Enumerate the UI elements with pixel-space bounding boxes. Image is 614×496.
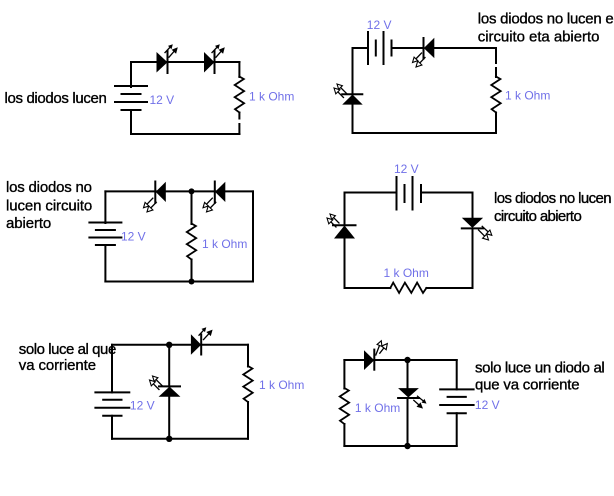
wire right lower vertical with gap (circuit 1): [238, 113, 240, 119]
node junction bottom (circuit 6): [404, 443, 410, 449]
node junction bottom (circuit 3): [189, 279, 195, 285]
wire top-left segment (circuit 2): [353, 47, 369, 49]
svg-text:12 V: 12 V: [475, 398, 500, 412]
wire left vertical (circuit 2): [352, 48, 354, 94]
wire bottom (circuit 5): [112, 438, 248, 440]
LED D7 (reversed, pointing up): [327, 214, 356, 239]
svg-text:12 V: 12 V: [150, 93, 175, 107]
svg-text:1 k Ohm: 1 k Ohm: [259, 378, 304, 392]
wire bottom (circuit 3): [105, 281, 253, 283]
resistor R3: [187, 224, 196, 260]
wire bottom (circuit 2): [353, 132, 497, 134]
resistor R2: [491, 77, 500, 113]
battery B2 12V: [368, 32, 392, 64]
svg-text:1 k Ohm: 1 k Ohm: [249, 90, 294, 104]
LED D11 (not lit): [364, 341, 387, 370]
svg-text:1 k Ohm: 1 k Ohm: [202, 237, 247, 251]
wire left lower vertical (circuit 5): [111, 416, 113, 439]
wire top (circuit 3): [105, 190, 253, 192]
LED D1: [157, 44, 178, 73]
svg-text:1 k Ohm: 1 k Ohm: [384, 266, 429, 280]
svg-text:1 k Ohm: 1 k Ohm: [505, 89, 550, 103]
wire middle branch lower (circuit 3): [191, 260, 193, 282]
wire left vertical (circuit 1): [130, 62, 132, 87]
battery B6 12V: [440, 389, 473, 413]
LED D8 (reversed, pointing down): [462, 218, 492, 240]
wire bottom (circuit 1): [131, 133, 239, 135]
wire right upper vertical (circuit 6): [456, 360, 458, 389]
svg-text:solo luce al que: solo luce al que: [19, 341, 116, 358]
battery B5 12V: [95, 392, 129, 415]
LED D6 (reversed): [203, 182, 225, 212]
wire left vertical (circuit 5): [111, 345, 113, 393]
svg-text:abierto: abierto: [6, 215, 51, 232]
svg-text:que va corriente: que va corriente: [475, 377, 579, 394]
wire left upper vertical (circuit 4): [344, 193, 346, 226]
LED D5 (reversed): [144, 182, 166, 212]
wire middle branch lower (circuit 6): [407, 398, 409, 446]
svg-text:los diodos lucen: los diodos lucen: [5, 90, 107, 107]
wire middle branch upper (circuit 6): [407, 360, 409, 388]
wire top right segment (circuit 4): [421, 192, 473, 194]
node junction bottom (circuit 5): [166, 436, 172, 442]
wire middle branch upper (circuit 3): [191, 191, 193, 224]
wire bottom left segment (circuit 4): [345, 287, 391, 289]
wire right lower vertical (circuit 6): [456, 413, 458, 446]
resistor R4: [390, 283, 426, 293]
wire left upper vertical (circuit 6): [343, 360, 345, 389]
wire left lower vertical (circuit 1): [130, 110, 132, 134]
wire top (circuit 1): [131, 61, 239, 63]
wire top (circuit 5): [112, 344, 248, 346]
wire LED to right corner (circuit 2): [434, 47, 496, 49]
wire middle branch lower (circuit 5): [168, 397, 170, 439]
svg-text:circuito eta abierto: circuito eta abierto: [478, 28, 600, 45]
wire left vertical (circuit 3): [104, 191, 106, 223]
wire right lower vertical (circuit 5): [247, 402, 249, 439]
wire right lower vertical (circuit 4): [472, 228, 474, 288]
diode D10 (middle branch, pointing up): [150, 376, 181, 397]
battery B4 12V: [397, 177, 422, 210]
svg-text:1 k Ohm: 1 k Ohm: [355, 401, 400, 415]
wire right upper vertical (circuit 4): [472, 193, 474, 219]
node junction top (circuit 3): [189, 188, 195, 194]
svg-text:va corriente: va corriente: [19, 357, 96, 374]
svg-text:lucen circuito: lucen circuito: [6, 198, 92, 215]
node junction top (circuit 6): [404, 357, 410, 363]
resistor R5: [243, 366, 252, 402]
wire bottom right segment (circuit 4): [426, 287, 472, 289]
battery B1 12V: [115, 86, 147, 110]
wire right lower vertical (circuit 2): [495, 113, 497, 134]
svg-text:los diodos no lucen: los diodos no lucen: [494, 190, 611, 207]
node junction top (circuit 5): [166, 342, 172, 348]
LED D3 (reversed): [413, 38, 435, 67]
svg-text:12 V: 12 V: [130, 399, 155, 413]
wire bottom (circuit 6): [344, 445, 456, 447]
svg-text:12 V: 12 V: [121, 229, 146, 243]
wire left lower vertical (circuit 4): [344, 239, 346, 289]
wire left lower vertical (circuit 2): [352, 105, 354, 133]
resistor R6: [340, 388, 349, 424]
wire right upper vertical (circuit 1): [238, 62, 240, 77]
svg-text:12 V: 12 V: [367, 18, 392, 32]
svg-text:los diodos no: los diodos no: [6, 179, 92, 196]
wire top left segment (circuit 4): [345, 192, 397, 194]
wire left lower vertical (circuit 3): [104, 245, 106, 282]
LED D2: [204, 44, 225, 73]
wire right upper vertical with gap (circuit 2): [495, 48, 497, 63]
wire middle branch upper (circuit 5): [168, 345, 170, 387]
svg-text:circuito abierto: circuito abierto: [494, 208, 581, 225]
wire left lower vertical (circuit 6): [343, 424, 345, 446]
svg-text:solo luce un diodo al: solo luce un diodo al: [475, 359, 604, 376]
battery B3 12V: [89, 223, 121, 246]
LED D4 (reversed, pointing up): [334, 84, 363, 105]
wire battery to LED (circuit 2): [392, 47, 424, 49]
wire right vertical (circuit 3): [252, 191, 254, 281]
svg-text:los diodos no lucen el: los diodos no lucen el: [478, 10, 614, 27]
wire top (circuit 6): [344, 359, 456, 361]
wire right upper vertical (circuit 5): [247, 345, 249, 367]
resistor R1: [235, 77, 244, 113]
LED D9: [191, 327, 213, 355]
svg-text:12 V: 12 V: [394, 162, 419, 176]
LED D12 (lit, pointing down): [398, 388, 426, 409]
